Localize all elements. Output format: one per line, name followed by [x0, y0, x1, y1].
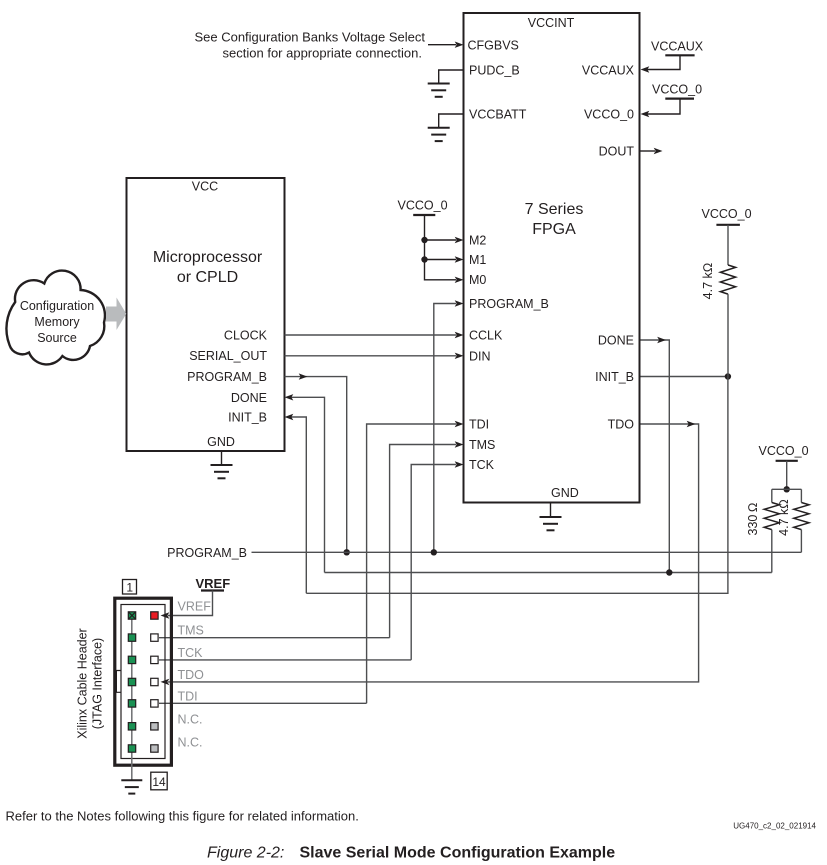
- svg-text:Source: Source: [37, 331, 77, 345]
- wire INIT_B pullup riser down and run left: [306, 377, 728, 594]
- svg-text:TDO: TDO: [608, 418, 635, 432]
- svg-text:SERIAL_OUT: SERIAL_OUT: [189, 349, 267, 363]
- svg-text:FPGA: FPGA: [532, 221, 576, 238]
- svg-text:TDI: TDI: [469, 418, 489, 432]
- junction PROGRAM_B at micro riser: [344, 549, 350, 555]
- svg-text:INIT_B: INIT_B: [228, 411, 267, 425]
- JTAG left GND pin row6: [128, 723, 135, 730]
- svg-text:N.C.: N.C.: [178, 713, 203, 727]
- svg-text:TCK: TCK: [469, 458, 495, 472]
- JTAG NC pin row6: [151, 723, 158, 730]
- wire PROGRAM_B bus: [252, 551, 802, 553]
- svg-text:VCC: VCC: [192, 180, 218, 194]
- VREF supply bar: [201, 589, 224, 591]
- wire DONE from FPGA: [641, 340, 670, 573]
- VCCO_0 supply bar: [665, 97, 694, 99]
- wire supply to resistor R1: [727, 225, 729, 265]
- gray arrow cloud to micro: [106, 298, 126, 331]
- svg-text:UG470_c2_02_021914: UG470_c2_02_021914: [733, 822, 816, 831]
- ground for JTAG header: [121, 780, 142, 793]
- arrowhead M1: [455, 256, 464, 262]
- JTAG header inner box: [121, 605, 165, 759]
- wire M2 branch: [425, 239, 457, 241]
- JTAG VREF pin (red): [151, 612, 158, 619]
- svg-text:Configuration: Configuration: [20, 299, 94, 313]
- FPGA U1 box: [464, 13, 640, 503]
- wire supply stub to resistor pair: [786, 461, 788, 490]
- wire VCCO_0 down to M0: [425, 215, 457, 280]
- arrowhead VREF into pin: [161, 612, 170, 618]
- VCCAUX supply bar: [665, 54, 694, 56]
- resistor R1 4.7k INIT_B pullup: [720, 265, 735, 294]
- JTAG TMS pin: [151, 634, 158, 641]
- ground for micro GND: [211, 465, 233, 478]
- wire PUDC_B to ground: [439, 70, 464, 83]
- wire CCLK from micro CLOCK: [285, 334, 457, 336]
- arrowhead on TDO wire: [687, 421, 696, 427]
- svg-text:VCCO_0: VCCO_0: [652, 83, 702, 97]
- arrowhead into VCCAUX: [641, 66, 650, 72]
- wire TMS header pin to riser: [159, 637, 390, 639]
- wire DONE horizontal run: [325, 572, 772, 574]
- wire to R3 top: [800, 489, 802, 502]
- JTAG header J1 outer box: [115, 598, 172, 765]
- svg-text:VCCO_0: VCCO_0: [759, 444, 809, 458]
- svg-text:GND: GND: [551, 486, 579, 500]
- JTAG NC pin row7: [151, 745, 158, 752]
- wire FPGA GND stub: [550, 503, 552, 517]
- svg-text:section for appropriate connec: section for appropriate connection.: [223, 46, 422, 61]
- arrowhead M2: [455, 237, 464, 243]
- wire TDI header pin to riser: [159, 702, 367, 704]
- svg-text:Refer to the Notes following t: Refer to the Notes following this figure…: [6, 809, 359, 824]
- arrowhead DOUT: [654, 148, 663, 154]
- svg-text:Microprocessor: Microprocessor: [153, 249, 263, 266]
- wire PROGRAM_B riser to FPGA: [434, 304, 456, 553]
- junction M1: [421, 256, 427, 262]
- wire TCK header pin to riser: [159, 659, 411, 661]
- wire DIN from micro SERIAL_OUT: [285, 355, 457, 357]
- svg-text:VCCO_0: VCCO_0: [702, 207, 752, 221]
- arrowhead DONE into micro: [285, 394, 294, 400]
- wire TMS from riser to FPGA: [390, 445, 456, 638]
- svg-text:DONE: DONE: [598, 334, 634, 348]
- svg-text:See Configuration Banks Voltag: See Configuration Banks Voltage Select: [194, 30, 425, 45]
- svg-text:14: 14: [152, 775, 166, 789]
- svg-text:M1: M1: [469, 253, 486, 267]
- svg-text:PROGRAM_B: PROGRAM_B: [167, 546, 247, 560]
- arrowhead M0: [455, 277, 464, 283]
- arrowhead TMS into FPGA: [455, 441, 464, 447]
- JTAG left GND pin row5: [128, 700, 135, 707]
- pin 1 marker box: [123, 580, 137, 595]
- resistor R2 330 ohm DONE pullup: [764, 503, 779, 530]
- svg-text:PROGRAM_B: PROGRAM_B: [469, 297, 549, 311]
- arrowhead DIN: [455, 353, 464, 359]
- svg-text:TDI: TDI: [178, 689, 198, 703]
- svg-text:M2: M2: [469, 234, 486, 248]
- svg-text:or CPLD: or CPLD: [177, 269, 238, 286]
- wire R3 bottom to PROGRAM_B line: [800, 530, 802, 553]
- arrowhead into VCCO_0: [641, 111, 650, 117]
- svg-text:CCLK: CCLK: [469, 329, 503, 343]
- wire resistor pair top bar: [772, 488, 802, 490]
- wire TDO from FPGA: [168, 424, 699, 682]
- wire VREF supply to header pin: [168, 591, 213, 616]
- junction INIT_B pullup: [725, 373, 731, 379]
- svg-text:CFGBVS: CFGBVS: [468, 39, 519, 53]
- wire M1 branch: [425, 259, 457, 261]
- svg-text:VCCO_0: VCCO_0: [584, 108, 634, 122]
- arrowhead on micro PROGRAM_B wire: [299, 373, 308, 379]
- JTAG left GND pin row7: [128, 745, 135, 752]
- junction resistor pair top: [784, 486, 790, 492]
- svg-text:DOUT: DOUT: [599, 145, 635, 159]
- svg-text:VREF: VREF: [196, 576, 231, 591]
- VCCO_0 pullup supply bar: [716, 224, 740, 226]
- JTAG pin 1 GND (green with X): [128, 612, 135, 619]
- wire VCCO_0 supply to pin: [647, 99, 680, 114]
- JTAG header key notch: [116, 671, 121, 693]
- svg-text:4.7 kΩ: 4.7 kΩ: [701, 263, 715, 300]
- svg-text:TDO: TDO: [178, 668, 205, 682]
- svg-text:7 Series: 7 Series: [525, 201, 584, 218]
- svg-text:1: 1: [126, 580, 133, 594]
- svg-text:Figure 2-2:: Figure 2-2:: [207, 845, 284, 862]
- arrowhead on DONE wire: [657, 337, 666, 343]
- junction DONE riser: [666, 569, 672, 575]
- wire INIT_B from FPGA: [641, 376, 728, 378]
- junction M2: [421, 237, 427, 243]
- svg-text:Xilinx Cable Header: Xilinx Cable Header: [76, 628, 90, 738]
- arrowhead INIT_B into micro: [285, 414, 294, 420]
- wire micro PROGRAM_B out: [285, 377, 347, 553]
- svg-text:DONE: DONE: [231, 391, 267, 405]
- wire VCCBATT to ground: [439, 114, 464, 127]
- wire INIT_B to micro: [291, 417, 306, 593]
- svg-text:VREF: VREF: [178, 600, 212, 614]
- JTAG ground rail through left pins: [131, 616, 133, 781]
- wire R1 bottom to INIT_B junction: [727, 294, 729, 376]
- pin 14 marker box: [151, 772, 167, 790]
- svg-text:PROGRAM_B: PROGRAM_B: [187, 370, 267, 384]
- ground for FPGA GND: [540, 517, 562, 530]
- wire to R2 top: [771, 489, 773, 502]
- resistor R3 4.7k PROGRAM_B pullup: [794, 503, 809, 530]
- svg-text:VCCBATT: VCCBATT: [469, 108, 527, 122]
- junction PROGRAM_B FPGA riser: [431, 549, 437, 555]
- svg-text:(JTAG Interface): (JTAG Interface): [91, 638, 105, 729]
- svg-text:Memory: Memory: [34, 315, 80, 329]
- JTAG TDI pin: [151, 700, 158, 707]
- wire DONE to micro: [291, 397, 325, 572]
- svg-text:VCCAUX: VCCAUX: [582, 64, 635, 78]
- ground for VCCBATT: [428, 128, 450, 141]
- svg-text:VCCO_0: VCCO_0: [398, 199, 448, 213]
- VCCO_0 M-pin supply bar: [413, 214, 435, 216]
- svg-text:TMS: TMS: [469, 438, 495, 452]
- svg-text:N.C.: N.C.: [178, 736, 203, 750]
- JTAG TDO pin: [151, 678, 158, 685]
- wire micro GND stub: [221, 451, 223, 465]
- svg-text:VCCAUX: VCCAUX: [651, 40, 704, 54]
- JTAG TCK pin: [151, 656, 158, 663]
- svg-text:TCK: TCK: [178, 646, 204, 660]
- wire note to CFGBVS: [428, 44, 456, 46]
- svg-text:TMS: TMS: [178, 624, 204, 638]
- wire TDI from riser to FPGA: [367, 424, 456, 703]
- cloud configuration memory source: [6, 271, 105, 365]
- svg-text:Slave Serial Mode Configuratio: Slave Serial Mode Configuration Example: [300, 845, 616, 862]
- wire VCCAUX supply to pin: [647, 55, 680, 69]
- arrowhead TDI into FPGA: [455, 421, 464, 427]
- arrowhead TCK into FPGA: [455, 461, 464, 467]
- arrowhead CCLK: [455, 332, 464, 338]
- microprocessor U2 box: [127, 178, 285, 451]
- svg-text:4.7 kΩ: 4.7 kΩ: [777, 499, 791, 536]
- svg-text:PUDC_B: PUDC_B: [469, 64, 520, 78]
- svg-text:GND: GND: [207, 435, 235, 449]
- svg-text:INIT_B: INIT_B: [595, 370, 634, 384]
- wire R2 bottom to DONE line: [771, 530, 773, 573]
- svg-text:VCCINT: VCCINT: [528, 16, 575, 30]
- svg-text:CLOCK: CLOCK: [224, 329, 268, 343]
- arrowhead TDO into header pin: [161, 679, 170, 685]
- JTAG left GND pin row3: [128, 656, 135, 663]
- JTAG left GND pin row2: [128, 634, 135, 641]
- wire DOUT output: [641, 150, 656, 152]
- svg-text:DIN: DIN: [469, 350, 491, 364]
- svg-text:M0: M0: [469, 273, 486, 287]
- JTAG left GND pin row4: [128, 678, 135, 685]
- arrowhead into CFGBVS: [455, 42, 464, 48]
- svg-text:330 Ω: 330 Ω: [746, 503, 760, 536]
- arrowhead PROGRAM_B into FPGA: [455, 300, 464, 306]
- ground for PUDC_B: [428, 84, 450, 97]
- wire TCK from riser to FPGA: [411, 465, 456, 660]
- VCCO_0 bottom supply bar: [776, 460, 798, 462]
